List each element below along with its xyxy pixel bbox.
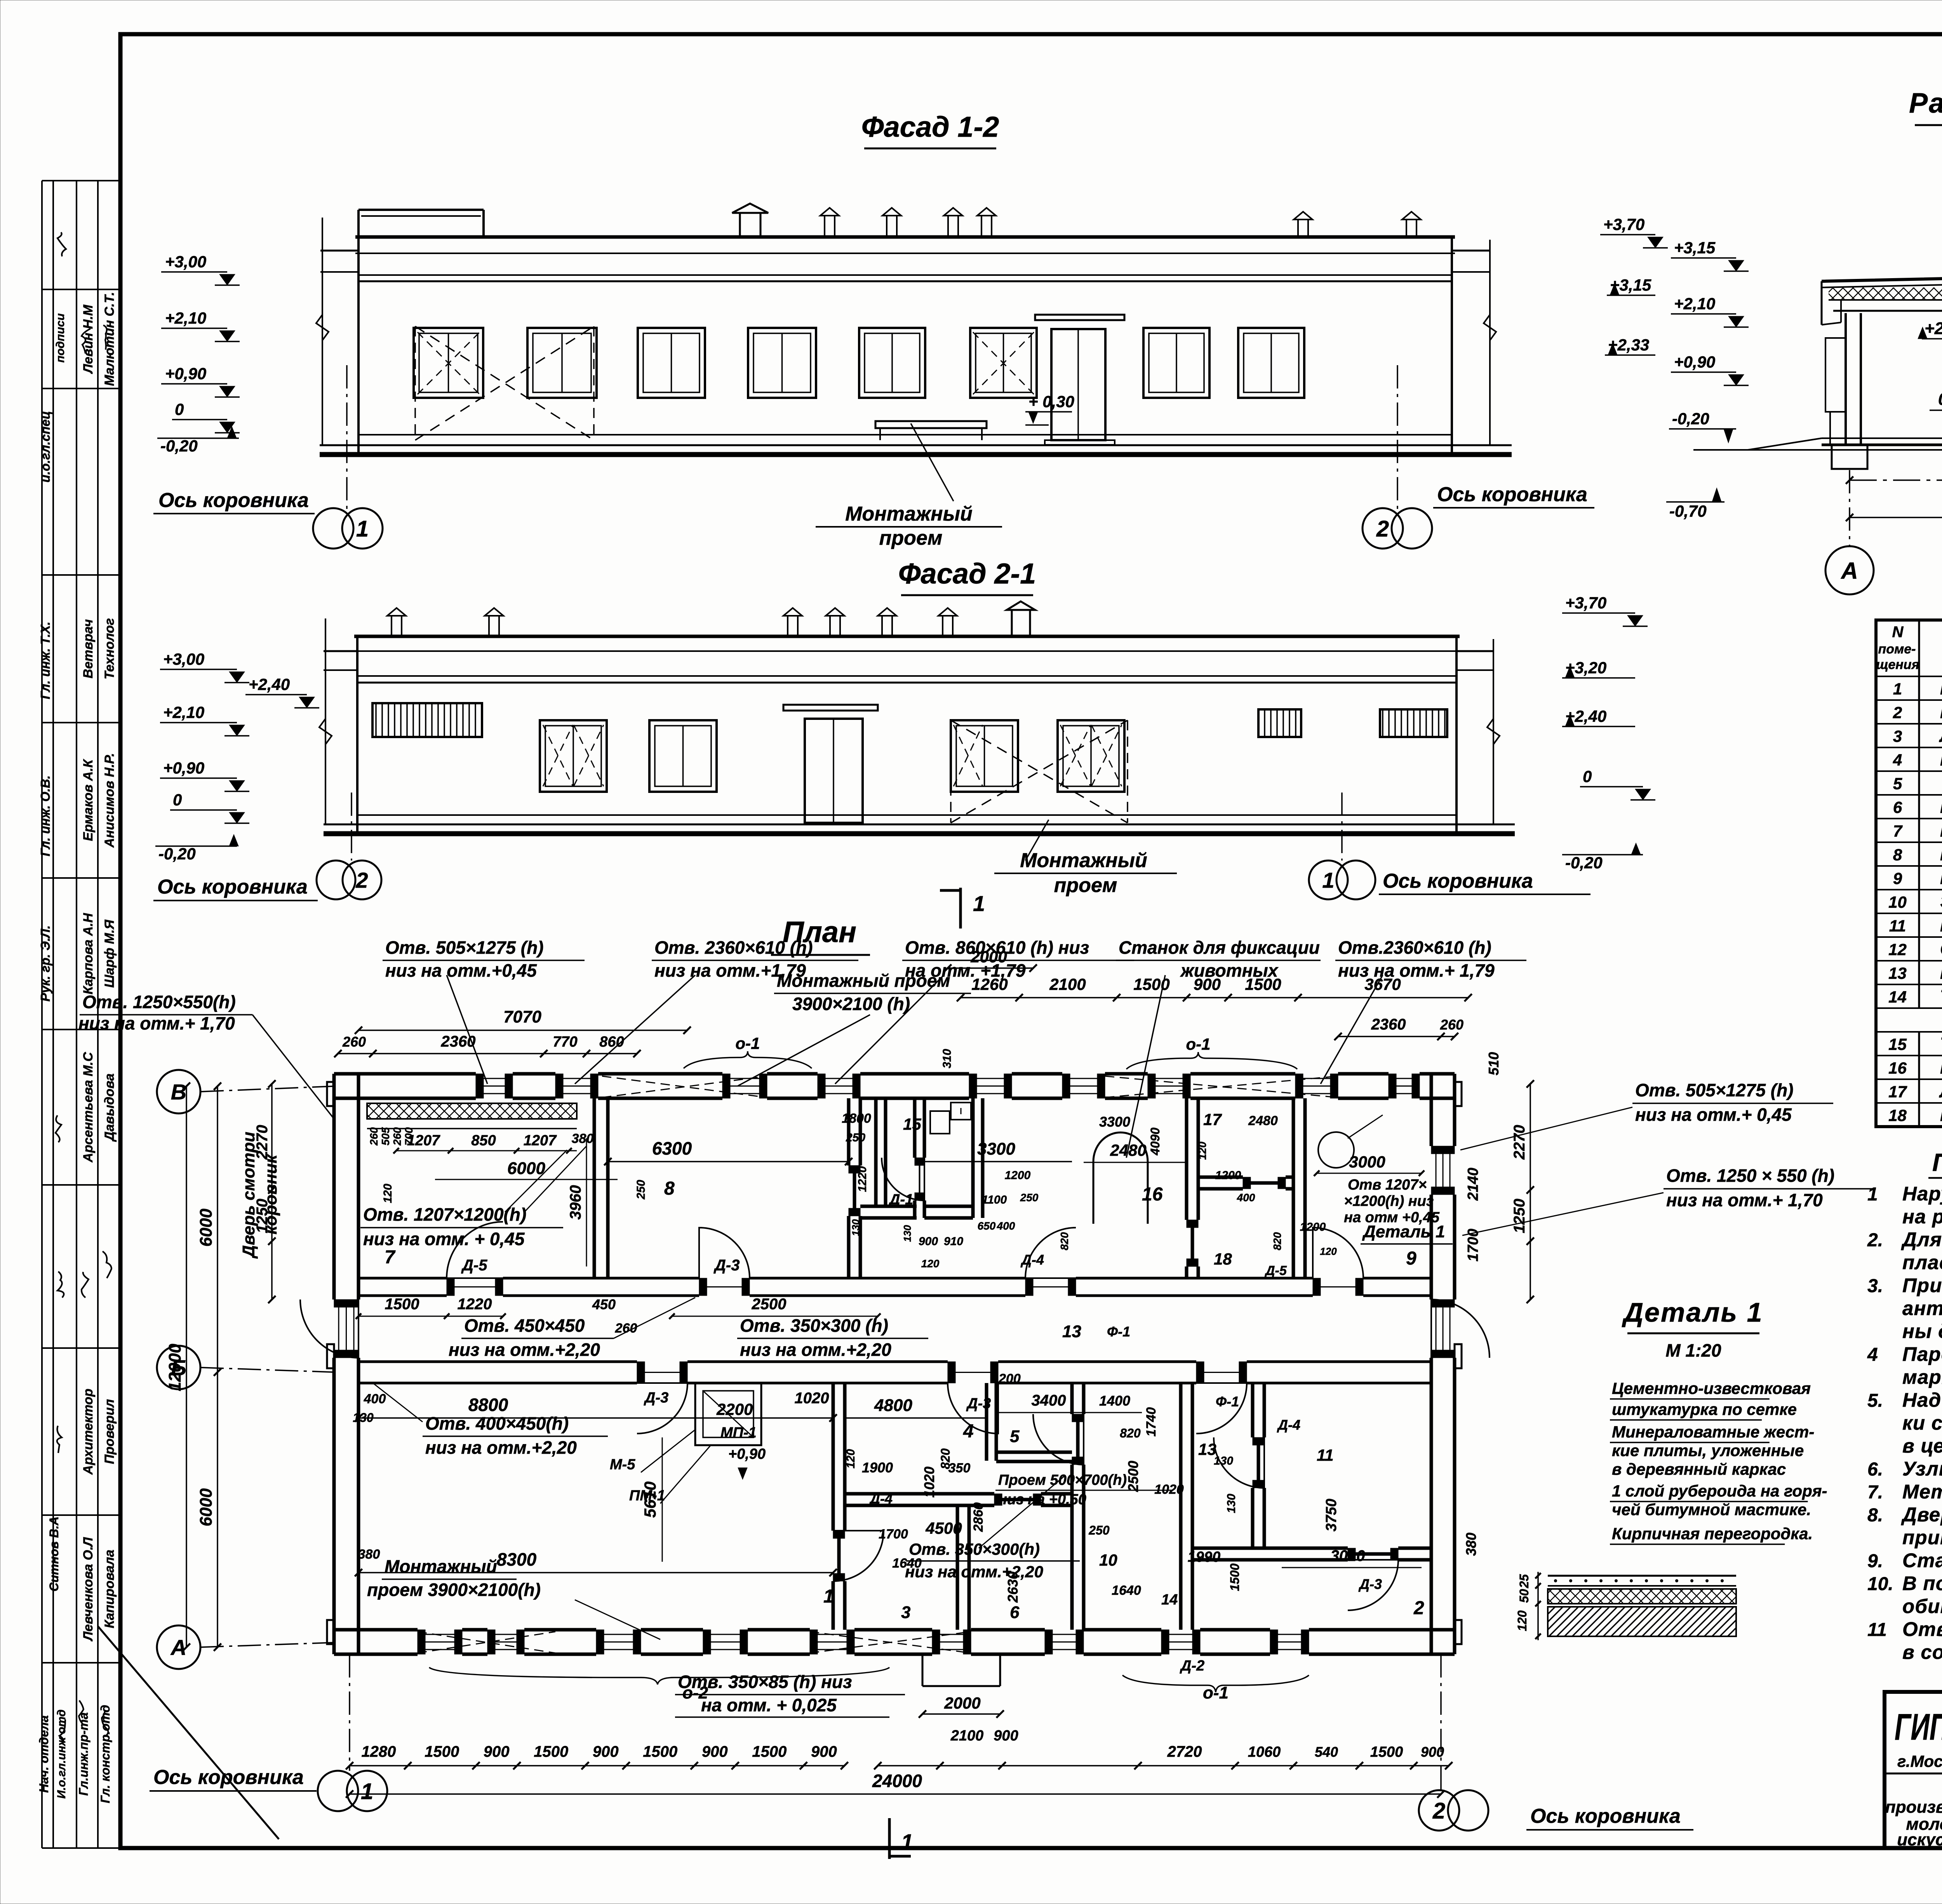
svg-text:Архитектор: Архитектор (81, 1388, 96, 1475)
plan axis 1 bottom circles (318, 1654, 387, 1811)
svg-text:Ветврач: Ветврач (81, 619, 96, 679)
svg-text:Гл. инж. Т.Х.: Гл. инж. Т.Х. (38, 622, 52, 699)
svg-text:1: 1 (361, 1779, 373, 1804)
svg-text:18: 18 (1214, 1250, 1232, 1268)
svg-text:2360: 2360 (1371, 1016, 1406, 1033)
svg-text:ны для крепления оконных и две: ны для крепления оконных и дверных короб… (1902, 1320, 1942, 1342)
svg-text:антисептированные деревянные п: антисептированные деревянные пробки по 3… (1902, 1297, 1942, 1319)
svg-text:130: 130 (1225, 1494, 1238, 1513)
svg-text:Тамбур: Тамбур (1940, 986, 1942, 1007)
svg-text:ГИПРОНИСЕЛЬХОЗ: ГИПРОНИСЕЛЬХОЗ (1895, 1706, 1942, 1748)
svg-text:2140: 2140 (1465, 1168, 1481, 1201)
svg-text:900: 900 (919, 1235, 938, 1248)
svg-text:2: 2 (1893, 704, 1902, 722)
svg-text:Арсентьева М.С: Арсентьева М.С (81, 1052, 96, 1163)
svg-text:380: 380 (358, 1547, 380, 1562)
facade 1-2 window W8 (1238, 328, 1304, 398)
svg-text:Технолог: Технолог (102, 618, 117, 679)
plan room 5 walls (987, 1383, 1072, 1462)
plan label stanok (1116, 937, 1321, 1158)
svg-text:14: 14 (1161, 1592, 1178, 1608)
svg-text:Малютин С.Т.: Малютин С.Т. (102, 292, 117, 386)
plan partition room 8-15 (849, 1098, 860, 1278)
svg-text:Д-4: Д-4 (869, 1491, 893, 1507)
section dim row 6000 (1846, 458, 1942, 484)
plan label otv 860x610 (835, 937, 1134, 1084)
svg-text:3.: 3. (1867, 1276, 1883, 1296)
svg-text:чей битумной мастике.: чей битумной мастике. (1612, 1500, 1811, 1519)
plan label otv 2360x610 right (1321, 937, 1526, 1084)
plan room7 strip dims (368, 1127, 647, 1203)
svg-text:6000: 6000 (197, 1488, 216, 1526)
svg-text:в цементном растворе.: в цементном растворе. (1902, 1435, 1942, 1457)
plan room 14 number (1161, 1592, 1178, 1608)
plan right margin label otv505 (1460, 1080, 1833, 1150)
facade 1-2 roof vent big (732, 204, 768, 237)
svg-text:8: 8 (1893, 846, 1902, 864)
svg-text:+3,00: +3,00 (165, 253, 206, 271)
svg-text:2860: 2860 (971, 1502, 986, 1532)
plan partition room 4 bottom (845, 1494, 1072, 1505)
svg-text:260: 260 (342, 1034, 366, 1050)
svg-text:Дверь по оси: Дверь по оси (1901, 1503, 1942, 1526)
svg-text:Монтажный проем: Монтажный проем (777, 970, 950, 991)
plan detail 1 reference room9 (1318, 1115, 1453, 1244)
svg-text:1200: 1200 (1300, 1221, 1326, 1233)
plan room 5 number (1010, 1427, 1020, 1446)
svg-text:10.: 10. (1867, 1574, 1893, 1594)
svg-text:900: 900 (1194, 975, 1221, 993)
section column A (1825, 313, 1867, 469)
svg-text:2100: 2100 (1049, 975, 1086, 993)
plan corridor dims (356, 1296, 881, 1407)
svg-text:+2,10: +2,10 (163, 703, 204, 721)
plan dim 4800 (845, 1396, 987, 1418)
svg-text:1740: 1740 (1144, 1407, 1159, 1437)
facade 2-1 vent pipe 6 (938, 608, 957, 636)
svg-text:0: 0 (175, 400, 184, 418)
facade 2-1 elevation marks right (1562, 594, 1655, 872)
svg-text:Деталь 1: Деталь 1 (1622, 1297, 1763, 1327)
svg-text:о-1: о-1 (1186, 1035, 1211, 1053)
svg-text:производительностью 6 тонн: производительностью 6 тонн (1885, 1798, 1942, 1817)
svg-text:Молокоприемная: Молокоприемная (1940, 702, 1942, 722)
svg-text:г.Москва: г.Москва (1897, 1752, 1942, 1770)
svg-text:2100: 2100 (950, 1728, 984, 1744)
svg-text:низ на отм.+0,45: низ на отм.+0,45 (385, 960, 537, 981)
svg-text:1: 1 (1322, 868, 1334, 892)
plan small dims upper cluster (842, 1049, 1337, 1270)
svg-text:В: В (171, 1080, 186, 1104)
facade 1-2 window W7 (1143, 328, 1209, 398)
section dim row 12000 (1846, 496, 1942, 521)
svg-text:1220: 1220 (856, 1166, 869, 1192)
svg-text:2720: 2720 (1167, 1743, 1202, 1760)
plan axis label bottom right (1526, 1805, 1693, 1830)
svg-text:5: 5 (1893, 775, 1902, 793)
facade 2-1 axis 2 circles (317, 793, 381, 899)
svg-text:Рук. гр. Э.Л.: Рук. гр. Э.Л. (38, 925, 52, 1002)
facade 1-2 raised parapet left end (358, 210, 484, 238)
svg-text:-0,70: -0,70 (1669, 502, 1707, 520)
svg-text:2480: 2480 (1110, 1141, 1146, 1159)
svg-text:Анисимов Н.Р.: Анисимов Н.Р. (102, 753, 117, 848)
svg-text:2500: 2500 (1125, 1461, 1141, 1492)
svg-text:4: 4 (1893, 751, 1902, 769)
plan partition 18-9 (1293, 1098, 1305, 1278)
svg-text:1: 1 (1867, 1184, 1878, 1205)
section elevation marks left (1666, 239, 1749, 520)
plan partition room 7-8 (594, 1098, 608, 1278)
svg-text:Ось коровника: Ось коровника (158, 489, 309, 512)
svg-text:Д-4: Д-4 (1020, 1252, 1044, 1268)
facade 2-1 axis label right (1379, 870, 1590, 894)
svg-text:24000: 24000 (872, 1771, 922, 1791)
svg-text:12000: 12000 (165, 1343, 184, 1391)
svg-text:и.о.гл.спец: и.о.гл.спец (38, 411, 52, 483)
svg-text:Ситнов В.А: Ситнов В.А (47, 1516, 61, 1591)
svg-text:2: 2 (1413, 1598, 1424, 1618)
svg-text:Моечная: Моечная (1940, 749, 1942, 770)
svg-text:При кладке кирпичных стен зало: При кладке кирпичных стен заложить в око… (1902, 1274, 1942, 1296)
svg-text:14: 14 (1888, 988, 1907, 1006)
svg-text:1500: 1500 (1245, 975, 1281, 993)
svg-text:1020: 1020 (1154, 1482, 1184, 1497)
svg-text:1207: 1207 (524, 1132, 557, 1149)
svg-text:Ось коровника: Ось коровника (153, 1766, 304, 1789)
svg-text:Д-3: Д-3 (966, 1395, 991, 1412)
plan dim 1700 rotated (1465, 1229, 1481, 1262)
svg-text:8: 8 (664, 1178, 675, 1199)
svg-text:15: 15 (903, 1115, 921, 1133)
facade 1-2 montage leader (816, 423, 1002, 549)
svg-text:260: 260 (368, 1127, 380, 1146)
svg-text:16: 16 (1142, 1184, 1163, 1205)
plan partition room 11-2 (1192, 1548, 1431, 1560)
svg-text:обить с 2х сторон кровельной с: обить с 2х сторон кровельной сталью по а… (1902, 1595, 1942, 1617)
svg-text:8300: 8300 (497, 1549, 537, 1570)
svg-text:2: 2 (1376, 516, 1389, 542)
svg-text:1220: 1220 (458, 1296, 492, 1313)
svg-text:Молочная: Молочная (1940, 678, 1942, 699)
plan toilet 12 walls (915, 1098, 983, 1218)
svg-text:+3,70: +3,70 (1603, 215, 1644, 233)
svg-text:Левин Н.М: Левин Н.М (81, 305, 96, 375)
left title strip grid (42, 181, 120, 1848)
svg-text:Левченкова О.Л: Левченкова О.Л (81, 1537, 96, 1642)
plan dim 2000 top (944, 948, 1037, 972)
facade 1-2 dashed window W6 (973, 332, 1034, 394)
section eaves left (1822, 281, 1841, 325)
svg-text:130: 130 (353, 1411, 374, 1425)
svg-text:М-5: М-5 (610, 1456, 635, 1473)
svg-text:3300: 3300 (1099, 1114, 1130, 1130)
svg-text:штукатурка по сетке: штукатурка по сетке (1612, 1400, 1797, 1418)
plan vestibule 14 outside (922, 1654, 1000, 1686)
detail 1 dims (1515, 1572, 1541, 1640)
svg-text:900: 900 (593, 1743, 619, 1760)
svg-text:1250: 1250 (1511, 1199, 1528, 1233)
svg-text:низ на отм.+ 1,70: низ на отм.+ 1,70 (78, 1013, 235, 1033)
svg-text:Д-5: Д-5 (461, 1257, 487, 1274)
svg-text:13: 13 (1888, 964, 1907, 982)
facade 2-1 axis label left (153, 876, 318, 901)
svg-text:3: 3 (901, 1603, 910, 1622)
plan axis circle V (157, 1070, 334, 1113)
svg-text:+0,90: +0,90 (1674, 353, 1715, 371)
svg-text:Д-2: Д-2 (1180, 1658, 1204, 1674)
svg-text:2.: 2. (1867, 1230, 1883, 1251)
section title (1909, 88, 1942, 125)
svg-text:Гл. констр.отд: Гл. констр.отд (98, 1705, 112, 1803)
svg-text:6300: 6300 (652, 1138, 692, 1158)
plan partition room 10-13 (1181, 1383, 1192, 1630)
plan partition room 13-11 (1253, 1383, 1264, 1548)
svg-text:низ на отм. + 0,45: низ на отм. + 0,45 (363, 1229, 525, 1249)
svg-text:1: 1 (901, 1829, 913, 1854)
svg-text:+ 0,30: + 0,30 (1028, 392, 1074, 411)
plan partition 16-17 (1187, 1098, 1198, 1278)
svg-text:-0,20: -0,20 (158, 845, 196, 863)
plan dims middle cluster (844, 1371, 1422, 1603)
svg-text:Металлическую площадку МП-1 см: Металлическую площадку МП-1 см. лист АС-… (1902, 1481, 1942, 1503)
svg-text:Отв. 1250×550(h): Отв. 1250×550(h) (82, 992, 236, 1012)
svg-text:505: 505 (379, 1127, 392, 1145)
svg-text:18: 18 (1888, 1106, 1907, 1125)
svg-text:9: 9 (1893, 869, 1902, 888)
svg-text:Карпова А.Н: Карпова А.Н (81, 913, 96, 995)
plan tambour 15 walls (860, 1098, 917, 1218)
detail 1 title (1622, 1297, 1763, 1360)
svg-text:Монтажный: Монтажный (1020, 849, 1147, 872)
plan bracket o-1 top right (1126, 1035, 1297, 1069)
svg-text:1500: 1500 (1228, 1563, 1242, 1591)
svg-text:низ на отм.+ 1,70: низ на отм.+ 1,70 (1666, 1190, 1823, 1210)
plan dim 3300 room16 (924, 1139, 1072, 1162)
svg-text:250: 250 (1088, 1523, 1110, 1537)
svg-text:+0,90: +0,90 (165, 364, 206, 383)
facade 1-2 break line left (316, 218, 329, 445)
svg-text:Наружные и внутренние стены вы: Наружные и внутренние стены выполняются … (1902, 1183, 1942, 1205)
svg-text:120: 120 (1196, 1141, 1208, 1160)
svg-text:Д-1: Д-1 (888, 1192, 913, 1208)
notes list (1867, 1183, 1942, 1663)
svg-text:3750: 3750 (1323, 1499, 1340, 1532)
svg-text:Отв. 1250 × 550 (h): Отв. 1250 × 550 (h) (1666, 1165, 1834, 1186)
facade 1-2 window W3 (638, 328, 705, 398)
svg-text:8800: 8800 (468, 1395, 508, 1415)
plan bracket o-1 bottom (1122, 1675, 1309, 1702)
svg-text:Фасад 1-2: Фасад 1-2 (861, 111, 999, 143)
title block org cell (1885, 1706, 1942, 1849)
plan label otv 505x1275 (383, 937, 585, 1084)
section label +2.70 (1918, 319, 1942, 339)
svg-text:820: 820 (938, 1448, 952, 1469)
facade 1-2 axis 2 circles (1363, 365, 1432, 549)
svg-text:1 слой рубероида на горя-: 1 слой рубероида на горя- (1612, 1482, 1827, 1500)
svg-text:2480: 2480 (1248, 1113, 1278, 1128)
svg-text:0: 0 (1938, 390, 1942, 409)
svg-text:3: 3 (1893, 727, 1902, 746)
svg-text:2360: 2360 (441, 1033, 476, 1050)
svg-text:низ на +0,50: низ на +0,50 (998, 1491, 1086, 1508)
plan room7 hatched strip (367, 1103, 577, 1129)
svg-text:120: 120 (1515, 1610, 1529, 1631)
svg-text:пластического прессования с мо: пластического прессования с морозостойко… (1902, 1251, 1942, 1273)
svg-text:4: 4 (963, 1421, 974, 1442)
plan wall pilasters (327, 1082, 1462, 1644)
pencil stroke bottom left (98, 1626, 279, 1839)
svg-text:9.: 9. (1867, 1551, 1883, 1571)
svg-text:250: 250 (635, 1180, 647, 1200)
svg-text:1500: 1500 (1133, 975, 1169, 993)
facade 2-1 elevation marks left (160, 650, 249, 683)
svg-text:Электрощитовая: Электрощитовая (1940, 892, 1942, 912)
svg-text:10: 10 (1099, 1551, 1117, 1569)
svg-text:1500: 1500 (643, 1743, 677, 1760)
svg-text:Отв. 350×300 (h): Отв. 350×300 (h) (740, 1315, 888, 1336)
svg-text:1200: 1200 (991, 1371, 1021, 1386)
svg-text:1: 1 (823, 1586, 834, 1607)
svg-text:на отм. + 0,025: на отм. + 0,025 (701, 1695, 837, 1715)
plan bracket o-2 bottom (429, 1667, 889, 1702)
svg-text:Вакуумнасосная: Вакуумнасосная (1940, 797, 1942, 817)
svg-text:250: 250 (846, 1131, 865, 1144)
svg-text:В помещениях венткамеры, вакуу: В помещениях венткамеры, вакуумнасосной … (1902, 1572, 1942, 1594)
svg-text:120: 120 (844, 1449, 857, 1469)
plan corridor labels otv 350x300 (737, 1315, 928, 1360)
left strip rotated names (37, 292, 117, 1803)
facade 2-1 vent pipe 2 (485, 608, 503, 636)
plan doors corridor lower (637, 1383, 1247, 1434)
svg-text:2500: 2500 (752, 1296, 787, 1313)
facade 2-1 break line right (1487, 639, 1500, 824)
svg-text:1020: 1020 (921, 1467, 937, 1498)
facade 2-1 axis 1 circles (1309, 793, 1375, 899)
facade 2-1 break line left (319, 618, 332, 824)
facade 1-2 window W2 (527, 328, 597, 398)
svg-text:1700: 1700 (879, 1527, 908, 1542)
plan room 8 dim 6300 (604, 1138, 852, 1165)
svg-text:в соответствии с принятым вари: в соответствии с принятым вариантом. (1902, 1641, 1942, 1663)
plan label otv 2360x610 (575, 937, 858, 1084)
plan label otv 350x85 bottom (675, 1672, 905, 1717)
facade 1-2 door (1035, 315, 1124, 445)
svg-text:Венткамера: Венткамера (1940, 868, 1942, 888)
svg-text:260: 260 (391, 1127, 403, 1146)
svg-text:искусственного осеменения: искусственного осеменения (1897, 1830, 1942, 1849)
svg-text:2: 2 (355, 868, 368, 892)
room list table rows 15-18 (1888, 1032, 1942, 1125)
svg-text:130: 130 (1214, 1455, 1233, 1467)
svg-text:1500: 1500 (425, 1743, 459, 1760)
svg-text:1100: 1100 (982, 1193, 1007, 1206)
section floor and ground (1693, 438, 1942, 450)
plan top exterior wall (334, 1074, 1455, 1098)
svg-text:Ось коровника: Ось коровника (1383, 870, 1533, 892)
svg-text:Над проемами шириной до 500мм: Над проемами шириной до 500мм устраивать… (1902, 1389, 1942, 1411)
svg-text:поме-: поме- (1878, 642, 1916, 657)
plan label montage proem top (738, 970, 971, 1086)
svg-text:Минераловатные жест-: Минераловатные жест- (1612, 1423, 1814, 1441)
plan dim 8800 (353, 1392, 837, 1425)
svg-text:Отв. 1207×1200(h): Отв. 1207×1200(h) (363, 1204, 526, 1225)
svg-text:6000: 6000 (507, 1159, 545, 1178)
svg-text:Ф-1: Ф-1 (1107, 1324, 1130, 1340)
facade 1-2 loading dock (875, 421, 987, 440)
section cut mark top (940, 888, 985, 928)
svg-text:650: 650 (978, 1220, 996, 1232)
svg-text:5.: 5. (1867, 1390, 1883, 1411)
plan partition room 1-3 (833, 1383, 845, 1630)
svg-text:6.: 6. (1867, 1459, 1883, 1480)
plan small labels otv 1207 right (1344, 1177, 1440, 1226)
left strip signatures (54, 232, 111, 1744)
svg-text:Станок для фиксации: Станок для фиксации (1119, 937, 1320, 958)
svg-text:17: 17 (1203, 1110, 1222, 1129)
plan partition room 3-6 (957, 1505, 969, 1630)
facade 2-1 vent pipe 4 (826, 608, 844, 636)
svg-text:Монтажный: Монтажный (385, 1556, 497, 1577)
svg-text:130: 130 (901, 1225, 913, 1242)
svg-text:принята -1020, для варианта II: принята -1020, для варианта II -1220. (1902, 1526, 1942, 1549)
plan dim 2140 rotated (1465, 1168, 1481, 1201)
svg-text:1020: 1020 (795, 1390, 829, 1407)
svg-text:+3,70: +3,70 (1565, 594, 1606, 612)
svg-text:1990: 1990 (1188, 1549, 1221, 1565)
plan toilet WC fixture (930, 1111, 950, 1162)
plan right margin dims (1463, 1052, 1534, 1556)
facade 2-1 window W2 (649, 720, 717, 792)
svg-text:820: 820 (1058, 1232, 1070, 1250)
plan partition 17-18 (1198, 1177, 1293, 1189)
svg-text:4090: 4090 (1148, 1127, 1162, 1155)
plan montage dashed X bottom wall (418, 1632, 971, 1653)
svg-text:кие плиты, уложенные: кие плиты, уложенные (1612, 1441, 1804, 1460)
svg-text:низ на отм.+ 1,79: низ на отм.+ 1,79 (1338, 960, 1495, 981)
svg-text:МП-1: МП-1 (720, 1425, 757, 1441)
detail 1 drawing (1548, 1576, 1736, 1636)
svg-text:1900: 1900 (862, 1460, 893, 1475)
detail 1 layer notes (1610, 1379, 1827, 1544)
svg-text:ки с армированием сеткой из ф: ки с армированием сеткой из ф 8АI с ячей… (1902, 1412, 1942, 1434)
facade 1-2 vent pipe 4 (977, 208, 996, 237)
svg-text:Ось коровника: Ось коровника (1437, 483, 1587, 506)
svg-text:на растворе марки 25.: на растворе марки 25. (1902, 1205, 1942, 1228)
svg-text:в деревянный каркас: в деревянный каркас (1612, 1460, 1786, 1478)
plan label otv 1207x1200 room7 (360, 1146, 586, 1249)
svg-text:900: 900 (811, 1743, 837, 1760)
facade 1-2 window W6 (970, 328, 1037, 398)
facade 1-2 vent pipe right 2 (1402, 212, 1421, 237)
svg-text:Д-3: Д-3 (1358, 1576, 1382, 1592)
svg-text:120: 120 (921, 1258, 940, 1270)
svg-text:Венткамера: Венткамера (1940, 820, 1942, 841)
svg-text:+2,10: +2,10 (165, 309, 206, 327)
title block frame (1885, 1692, 1942, 1848)
facade 2-1 vent pipe 5 (878, 608, 896, 636)
svg-text:марки МБКГ-65.: марки МБКГ-65. (1902, 1366, 1942, 1388)
facade 2-1 vent pipe 1 (387, 608, 406, 636)
facade 1-2 building outline (320, 237, 1512, 455)
plan label otv 1250x550 left (78, 992, 334, 1119)
svg-text:12: 12 (1888, 941, 1907, 959)
svg-text:М 1:20: М 1:20 (1665, 1340, 1721, 1360)
svg-text:+2,40: +2,40 (249, 675, 290, 693)
plan corridor upper wall (358, 1278, 1431, 1296)
svg-text:380: 380 (572, 1131, 594, 1146)
svg-text:Проем 500×700(h): Проем 500×700(h) (998, 1472, 1127, 1488)
